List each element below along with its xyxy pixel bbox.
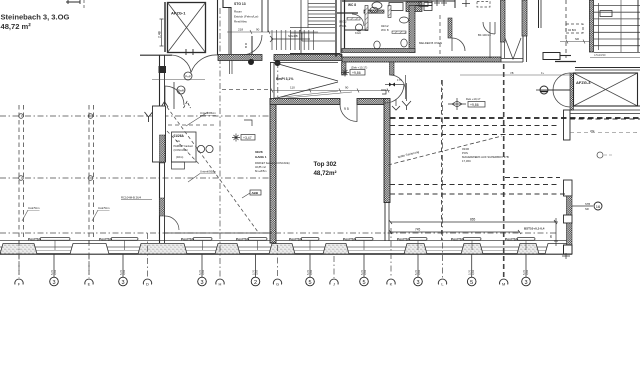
ramp dashed centreline	[222, 89, 271, 91]
wall y68 horizontal double to right edge	[575, 67, 640, 69]
small dash top x84	[83, 0, 85, 9]
top tick marks x437	[434, 0, 447, 6]
svg-text:745: 745	[415, 228, 421, 232]
svg-text:AFZG-3: AFZG-3	[576, 80, 591, 85]
chevron mark 2	[184, 102, 191, 109]
bath block bottom wall	[342, 49, 415, 53]
svg-text:Estrich (Fehm/Lw): Estrich (Fehm/Lw)	[234, 15, 258, 19]
window centre tick	[54, 240, 56, 250]
dashed line y194	[390, 193, 568, 195]
svg-text:Raum: Raum	[234, 10, 243, 14]
axis bubble arc K	[387, 279, 395, 284]
svg-text:Instr/5cm: Instr/5cm	[28, 206, 40, 210]
svg-text:46,85 m2: 46,85 m2	[255, 165, 266, 169]
wall line x490	[489, 22, 491, 58]
axis bubble circle 3	[50, 277, 59, 286]
svg-text:218: 218	[238, 28, 243, 32]
Top302 top wall hatched left part	[270, 99, 340, 105]
axis bubble arc H	[216, 279, 224, 284]
corridor top hatched wall band	[218, 55, 262, 61]
facade pier	[461, 244, 483, 255]
doorway verticals x230	[229, 61, 231, 75]
svg-text:PARKET bankert (CONCAVE): PARKET bankert (CONCAVE)	[255, 161, 290, 165]
axis bubble circle 5	[467, 277, 476, 286]
svg-text:B R: B R	[244, 42, 248, 48]
svg-text:2,48: 2,48	[158, 31, 162, 38]
axis connector line x202	[201, 254, 203, 277]
elevation marker corridor +9,86	[341, 69, 349, 77]
Y survey mark on grid line	[145, 112, 153, 122]
dashed diagonal long	[167, 107, 258, 232]
leader to circle 16	[572, 205, 593, 207]
elevator lobby door arc right	[191, 55, 218, 73]
door arc x483	[483, 22, 495, 34]
svg-text:AFZG-1: AFZG-1	[171, 11, 186, 16]
dashed vertical x442 upper	[441, 80, 443, 240]
door arc second leaf	[391, 75, 406, 99]
window bar	[463, 238, 481, 241]
Top302 right wall hatched	[384, 99, 390, 203]
left small wall step	[337, 12, 358, 14]
svg-text:PnP: PnP	[185, 75, 191, 79]
grid line axis y116	[0, 115, 270, 117]
label box 01/26A	[172, 132, 197, 162]
elevation flag right of door	[406, 83, 408, 101]
washbasin ellipse 2	[400, 17, 409, 23]
svg-text:Dek +10,17: Dek +10,17	[466, 97, 481, 101]
facade pier	[323, 244, 349, 255]
corner mark y120	[244, 120, 252, 126]
svg-text:5,70: 5,70	[306, 269, 310, 275]
ramp left wall strip double line	[271, 63, 275, 99]
top-left tick marks	[66, 0, 80, 4]
axis connector line x471.7	[471, 254, 473, 277]
right stair wall hatched x590	[590, 0, 594, 52]
svg-text:5: 5	[362, 280, 365, 286]
svg-text:Instr/5cm: Instr/5cm	[98, 206, 110, 210]
svg-text:Pos7/1m: Pos7/1m	[28, 237, 41, 241]
stair landing lines	[290, 27, 335, 29]
elevator lobby door arc left	[171, 55, 192, 73]
ramp top edge	[270, 62, 338, 64]
axis bubble arc D	[143, 279, 151, 284]
corridor top hatched wall band part2	[274, 55, 342, 61]
facade pier	[404, 244, 427, 255]
wall y61 horizontal	[555, 61, 576, 63]
wall stub below band x341 hatched	[342, 62, 347, 75]
facade pier	[0, 244, 37, 255]
svg-text:5,70: 5,70	[522, 269, 526, 275]
dimension line y32	[227, 31, 318, 33]
AFZG-3 double door arcs	[553, 73, 570, 107]
WC stall box 1	[389, 3, 403, 11]
stair left string	[300, 0, 302, 53]
twin circles	[197, 145, 204, 152]
radiator bar 1	[347, 18, 360, 21]
dashed line y135	[390, 134, 560, 136]
svg-text:3,92: 3,92	[417, 269, 421, 275]
svg-text:(40m): (40m)	[176, 155, 183, 159]
washbasin on top wall	[372, 2, 382, 9]
ABB label box with leader	[250, 190, 261, 195]
svg-text:Pos7/1m: Pos7/1m	[99, 237, 112, 241]
grid axis vertical x89	[88, 105, 90, 278]
svg-text:NR: NR	[575, 37, 579, 41]
main stair treads	[308, 3, 335, 5]
svg-text:Pos7/1m: Pos7/1m	[343, 237, 356, 241]
svg-text:ABB: ABB	[252, 191, 259, 195]
svg-text:STG 13: STG 13	[234, 2, 246, 6]
thin line y75	[460, 74, 572, 76]
svg-text:Rest/Abw: Rest/Abw	[234, 20, 248, 24]
svg-text:16: 16	[596, 204, 601, 209]
svg-text:BST10+0,1-0,4: BST10+0,1-0,4	[524, 227, 545, 231]
svg-text:02/28: 02/28	[255, 150, 263, 154]
svg-text:G: G	[276, 282, 279, 287]
svg-text:D: D	[146, 282, 149, 287]
door arc lower on left wall	[165, 216, 179, 230]
window bar	[248, 238, 267, 241]
elevator AFZG-1 X diagonal 1	[168, 3, 206, 53]
dashed box top	[477, 2, 490, 8]
window bar	[111, 238, 138, 241]
facade window glazing line	[0, 250, 572, 252]
svg-text:BmPl 3,1%: BmPl 3,1%	[276, 77, 293, 81]
svg-text:WC 1: WC 1	[339, 24, 347, 28]
svg-text:Pos7/1m: Pos7/1m	[236, 237, 249, 241]
svg-text:4.5x16/30: 4.5x16/30	[594, 53, 606, 57]
axis bubble circle 3	[414, 277, 423, 286]
grid axis vertical x19	[18, 105, 20, 278]
facade pier	[269, 244, 295, 255]
svg-text:5: 5	[308, 280, 311, 286]
svg-text:+3,47: +3,47	[243, 136, 252, 140]
corridor door arc on left wall	[165, 86, 184, 105]
svg-text:3,92: 3,92	[122, 269, 126, 275]
Pe circle symbol	[540, 86, 548, 94]
svg-text:5,70: 5,70	[198, 269, 202, 275]
AFZG-3 bottom double lines	[573, 105, 640, 107]
Top302 right wall lower thin	[384, 202, 386, 241]
door leaf line x174	[173, 82, 175, 109]
right wall hatched segment 1	[567, 196, 573, 215]
bath partition horizontal y30	[345, 29, 368, 31]
svg-text:3,92: 3,92	[201, 269, 205, 275]
elevation marker diamond	[448, 98, 466, 110]
svg-text:3,92: 3,92	[53, 269, 57, 275]
window centre tick	[363, 240, 365, 250]
right dim vertical	[555, 218, 557, 246]
wall stub above door x389 hatched	[390, 62, 395, 75]
right exterior wall upper pier	[564, 180, 573, 196]
svg-text:Top 302: Top 302	[314, 161, 337, 168]
dashed line y125	[390, 125, 560, 127]
axis bubble arc L	[438, 279, 446, 284]
small box below label	[172, 162, 185, 169]
STG door leaf	[251, 36, 253, 55]
facade pier	[70, 244, 109, 255]
plus mark bottom right	[562, 253, 570, 259]
svg-text:17,36C: 17,36C	[462, 159, 471, 163]
svg-text:M: M	[502, 282, 505, 287]
svg-text:MELDER B OVEN: MELDER B OVEN	[419, 41, 442, 45]
axis connector line x310	[309, 254, 311, 277]
svg-text:J: J	[333, 282, 335, 287]
washbasin ellipse 1	[370, 7, 378, 13]
elevation marker +3,47	[232, 134, 240, 142]
axis bubble circle 3	[119, 277, 128, 286]
STG wall inner line	[228, 8, 230, 54]
elevator AFZG-3 X diagonals	[574, 73, 638, 106]
svg-text:90: 90	[256, 28, 260, 32]
dimension ticks left of elevator	[160, 19, 164, 46]
dimension line 865	[390, 221, 556, 223]
svg-text:8m+2l/5m: 8m+2l/5m	[255, 169, 266, 173]
left exterior wall double line	[159, 55, 161, 243]
svg-text:KGC: KGC	[355, 31, 361, 35]
svg-text:3: 3	[524, 280, 527, 286]
elevator AFZG-1 shaft box	[168, 3, 206, 53]
axis bubble circle 3	[198, 277, 207, 286]
svg-text:3: 3	[52, 280, 55, 286]
bath block left wall	[344, 0, 346, 52]
shaft bottom double lines	[501, 58, 523, 60]
window centre tick	[309, 240, 311, 250]
small circle right mid	[597, 152, 603, 158]
bold dashed line y118	[390, 117, 640, 119]
left wall hatched segment	[160, 135, 165, 163]
radiator bar 2	[392, 31, 406, 34]
shaft right wall hatched	[522, 0, 527, 36]
grid axis offset line x23	[23, 105, 25, 240]
elevator AFZG-3 left wall hatched	[570, 73, 574, 110]
stair handrail vertical	[598, 3, 600, 50]
svg-text:5: 5	[470, 280, 473, 286]
axis connector line x255.5	[255, 254, 257, 277]
elevator door leaf marks	[185, 49, 187, 55]
svg-text:48,72m²: 48,72m²	[313, 170, 336, 177]
svg-text:Pos7/1m: Pos7/1m	[505, 237, 518, 241]
svg-text:Pos7/1m: Pos7/1m	[289, 237, 302, 241]
axis connector line x526	[525, 254, 527, 277]
KGC circle	[356, 24, 363, 31]
svg-text:+9,86: +9,86	[470, 103, 479, 107]
dimension line 745	[390, 231, 520, 233]
hatched strip y10	[364, 10, 384, 13]
svg-text:5,70: 5,70	[414, 269, 418, 275]
corridor bottom inner line over facade	[165, 232, 272, 234]
svg-text:02/12: 02/12	[339, 20, 347, 24]
dashed line y118 right edge	[570, 118, 640, 120]
window bar	[40, 238, 70, 241]
window centre tick	[257, 240, 259, 250]
bath door arc	[352, 14, 364, 26]
window bar	[409, 238, 427, 241]
small squiggle left of door	[381, 90, 386, 94]
shaft right wall lower	[522, 36, 524, 62]
svg-text:VB: VB	[510, 71, 514, 75]
facade inner wall line	[0, 240, 572, 242]
window centre tick	[417, 240, 419, 250]
svg-text:3,92: 3,92	[255, 269, 259, 275]
wall pier white left	[153, 106, 166, 162]
svg-text:3,92: 3,92	[309, 269, 313, 275]
dashed diagonal short	[167, 131, 200, 165]
axis bubble arc E	[85, 279, 93, 284]
Top302 top wall hatched right part	[357, 99, 384, 105]
svg-text:5,70: 5,70	[251, 269, 255, 275]
wall stub x448 hatched	[448, 18, 452, 38]
shaft V symbol	[505, 38, 521, 59]
svg-text:RC104M-B 26/4: RC104M-B 26/4	[121, 196, 141, 200]
facade window face line	[0, 246, 572, 248]
window bar	[517, 238, 535, 241]
svg-text:K: K	[390, 282, 393, 287]
svg-text:01/26A: 01/26A	[174, 134, 185, 138]
axis bubble arc G	[273, 279, 281, 284]
svg-text:110: 110	[290, 86, 295, 90]
flush column circle 1	[248, 59, 254, 65]
axis dash-dot vertical x19	[18, 240, 20, 278]
axis connector line x418	[417, 254, 419, 277]
svg-text:WC 8: WC 8	[381, 28, 389, 32]
axis bubble circle 5	[360, 277, 369, 286]
svg-text:865: 865	[470, 218, 476, 222]
svg-text:5,70: 5,70	[360, 269, 364, 275]
elevator AFZG-1 X diagonal 2	[168, 3, 206, 53]
axis dash-dot vertical x220	[219, 8, 221, 277]
window bar	[355, 238, 373, 241]
stair box top	[600, 11, 612, 17]
axis bubble arc J	[330, 279, 338, 284]
bath block top wall line	[342, 0, 432, 2]
axis dash-dot vertical x503.7	[503, 64, 505, 278]
facade pier	[215, 244, 240, 255]
svg-text:3: 3	[200, 280, 203, 286]
dim line y41 right	[560, 41, 590, 43]
svg-text:95: 95	[549, 234, 553, 238]
svg-text:3,92: 3,92	[363, 269, 367, 275]
wall hatch inside pier	[160, 135, 166, 162]
leader diagonal above top wall	[274, 91, 338, 98]
wall segment above melder	[415, 0, 455, 8]
svg-text:StG4/B: StG4/B	[288, 34, 298, 38]
bath partition wall x365	[365, 6, 368, 31]
svg-text:9 5: 9 5	[344, 107, 349, 111]
svg-text:Unterk/95cm: Unterk/95cm	[200, 111, 217, 115]
svg-text:H: H	[219, 282, 222, 287]
svg-text:PARKET bankert: PARKET bankert	[174, 144, 194, 148]
svg-text:NR: NR	[585, 207, 589, 211]
axis bubble arc F	[15, 279, 23, 284]
circle 16	[594, 202, 602, 210]
grid node circle	[19, 176, 24, 181]
svg-text:WC 8: WC 8	[348, 3, 356, 7]
svg-text:+9,86: +9,86	[352, 71, 361, 75]
toilet 1	[374, 41, 380, 49]
window bar	[301, 238, 319, 241]
axis connector line x54	[53, 254, 55, 277]
dimension line y90 above room	[270, 90, 390, 92]
axis bubble circle 5	[306, 277, 315, 286]
left wall hatched segment 2	[160, 198, 165, 216]
detector circle RwM	[177, 86, 185, 94]
svg-text:Pos7/1m: Pos7/1m	[397, 237, 410, 241]
svg-text:(Dek +10,17): (Dek +10,17)	[351, 66, 367, 70]
STG room left wall jog	[223, 0, 231, 54]
door arc at x455	[452, 38, 465, 51]
STG door arc	[242, 35, 262, 55]
right stair treads	[594, 5, 640, 7]
axis dash-dot vertical x442.5	[442, 80, 444, 278]
flush column circle 2	[275, 60, 281, 66]
corridor top hatched wall band right part	[342, 57, 501, 62]
WC stall hatch block	[406, 2, 422, 12]
svg-text:Pos7/1m: Pos7/1m	[451, 237, 464, 241]
toilet 2	[401, 39, 407, 47]
right wall hatched segment 2	[567, 223, 573, 245]
bath partition wall x388	[388, 6, 391, 18]
smoke detector circle PnP	[184, 72, 192, 80]
svg-text:3: 3	[416, 280, 419, 286]
grid line axis y233	[0, 232, 558, 234]
dashed line y125 corridor	[168, 124, 215, 126]
svg-text:3,92: 3,92	[525, 269, 529, 275]
axis dash-dot vertical x277.8	[277, 62, 279, 100]
dashed line y178	[505, 177, 560, 179]
WC stall box 2	[424, 3, 432, 11]
axis dash-dot vertical x147.5	[147, 233, 149, 278]
right wall corner block	[564, 245, 573, 254]
axis bubble arc M	[500, 279, 508, 284]
axis connector line x364	[363, 254, 365, 277]
Top302 door arc	[340, 105, 357, 122]
svg-text:3,92: 3,92	[471, 269, 475, 275]
dashed diagonal spaete sanierung	[388, 136, 502, 165]
axis dash-dot vertical x334	[333, 256, 335, 278]
dashed axis x566 top	[565, 0, 567, 58]
svg-text:175: 175	[397, 78, 402, 82]
stair direction arrow	[270, 36, 310, 42]
wall verticals x262 x268	[261, 0, 263, 32]
right wall trapezoid pier	[564, 215, 573, 223]
window centre tick	[471, 240, 473, 250]
svg-text:3: 3	[121, 280, 124, 286]
stairwell side wall x217.5	[217, 0, 219, 55]
stair bottom line	[290, 53, 340, 55]
axis dash-dot vertical x391	[390, 228, 392, 278]
lower stair flight treads	[271, 30, 273, 50]
window centre tick	[525, 240, 527, 250]
gray line y57 under stairs	[590, 57, 640, 59]
grid node circle	[19, 114, 24, 119]
facade pier	[138, 244, 187, 255]
axis connector line x123	[122, 254, 124, 277]
svg-text:2: 2	[254, 280, 257, 286]
door centre line	[548, 89, 570, 91]
svg-text:5,70: 5,70	[50, 269, 54, 275]
svg-text:E: E	[88, 282, 91, 287]
axis bubble circle 2	[251, 277, 260, 286]
svg-text:48,72 m²: 48,72 m²	[1, 22, 32, 31]
elevation flag x396	[395, 99, 397, 106]
axis bubble circle 3	[522, 277, 531, 286]
MELDER room dashed wall	[439, 15, 441, 58]
bath block inner vertical wall hatched	[409, 6, 415, 53]
grid node circle	[88, 176, 93, 181]
window centre tick	[202, 240, 204, 250]
grid axis offset line x93	[93, 105, 95, 240]
